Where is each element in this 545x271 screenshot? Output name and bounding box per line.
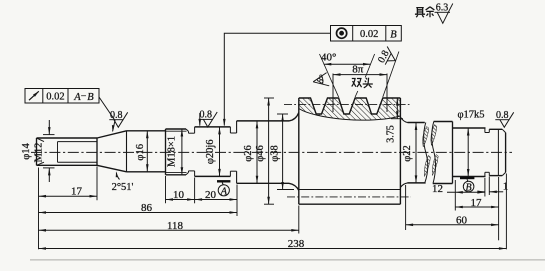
- shaft section phi16: [126, 131, 128, 172]
- shaft section M18x1: [165, 129, 167, 175]
- dimension 60: [406, 224, 499, 226]
- svg-text:φ14: φ14: [21, 142, 32, 159]
- shoulder section after break: [434, 121, 453, 123]
- feature control frame concentricity 0.02 B: [331, 26, 402, 42]
- extension line at 86/20 right: [236, 185, 238, 217]
- page bottom scan streak: [30, 259, 545, 261]
- shaft end section: [489, 128, 502, 130]
- svg-text:B: B: [466, 182, 472, 193]
- svg-text:6.3: 6.3: [436, 3, 449, 14]
- svg-text:φ46: φ46: [255, 145, 266, 162]
- svg-text:0.02: 0.02: [46, 92, 64, 103]
- dimension phi20j6: [219, 127, 221, 176]
- break line right piece: [432, 122, 436, 184]
- svg-text:B: B: [87, 92, 94, 103]
- shaft section M12 threaded stub: [36, 138, 38, 165]
- worm root line bottom: [299, 189, 401, 191]
- roughness 0.8 on worm tooth flank rotated: [376, 45, 399, 68]
- svg-text:−: −: [81, 91, 87, 102]
- tooth flank extension line for roughness: [383, 52, 399, 98]
- dimension phi46: [264, 97, 274, 99]
- svg-text:φ17k5: φ17k5: [457, 110, 484, 121]
- worm blank right end face: [399, 98, 401, 204]
- label qiyu remainder: [415, 8, 425, 18]
- thread relief line on M12 stub: [57, 142, 59, 163]
- svg-text:φ38: φ38: [269, 145, 280, 162]
- extension phi22 start down: [405, 185, 407, 230]
- dimension 12: [447, 191, 485, 193]
- dimension 118: [39, 229, 299, 231]
- svg-text:17: 17: [71, 186, 83, 198]
- leader from frame to phi20j6: [224, 33, 330, 125]
- relief groove after phi20j6: [229, 127, 231, 133]
- extension chamfer line down: [498, 177, 500, 240]
- svg-text:φ16: φ16: [135, 144, 146, 161]
- relief groove after phi17k5: [484, 128, 486, 133]
- svg-text:238: 238: [288, 238, 305, 250]
- svg-text:2°51': 2°51': [112, 182, 134, 193]
- svg-text:10: 10: [173, 189, 185, 201]
- svg-text:40°: 40°: [321, 52, 336, 64]
- svg-text:M12: M12: [34, 143, 45, 163]
- dimension 3.75: [391, 118, 403, 120]
- dimension 86: [39, 212, 238, 214]
- worm tip line bottom: [299, 203, 401, 205]
- extension line left end: [38, 168, 40, 250]
- svg-text:86: 86: [141, 202, 153, 214]
- dimension phi14 and M12: [43, 134, 55, 136]
- svg-text:1: 1: [503, 181, 509, 193]
- fillet worm to phi22 bottom: [400, 183, 407, 188]
- leader from frame to cone: [99, 97, 115, 131]
- svg-text:8π: 8π: [352, 63, 364, 75]
- worm pitch line bottom: [287, 196, 411, 198]
- svg-text:0.02: 0.02: [360, 29, 378, 40]
- dimension 20: [195, 199, 237, 201]
- 40 degree extension lines: [320, 54, 339, 97]
- svg-text:17: 17: [471, 197, 483, 209]
- worm thread profile: [299, 98, 401, 114]
- svg-text:118: 118: [167, 220, 184, 232]
- extension right end down: [505, 174, 507, 250]
- dimension phi22: [415, 123, 417, 183]
- shaft section phi26: [237, 120, 289, 122]
- svg-text:0.8: 0.8: [200, 110, 213, 121]
- extension worm left face down: [298, 206, 300, 234]
- svg-text:B: B: [390, 29, 397, 40]
- relief groove after M18x1: [188, 131, 190, 133]
- svg-text:M18×1: M18×1: [167, 136, 178, 167]
- datum A circle: [217, 180, 230, 182]
- 8pi extension lines: [332, 74, 334, 113]
- svg-text:12: 12: [432, 183, 443, 195]
- worm pitch line top: [284, 103, 410, 105]
- svg-text:60: 60: [456, 215, 468, 227]
- dimension 238: [39, 248, 507, 250]
- dimension 1 groove width: [479, 191, 485, 193]
- svg-text:0.8: 0.8: [110, 110, 123, 121]
- roughness 0.8 on phi20j6: [199, 110, 217, 127]
- dimension M18x1: [181, 129, 183, 175]
- shaft section phi17k5: [453, 127, 486, 129]
- dimension 40 degrees: [324, 63, 371, 65]
- extension journal left down: [454, 180, 456, 211]
- extension line phi20 start: [194, 178, 196, 204]
- lead angle 8 degree symbol: [313, 73, 326, 82]
- break line left piece: [424, 123, 428, 183]
- svg-text:A: A: [220, 186, 228, 197]
- svg-text:φ26: φ26: [243, 145, 254, 162]
- feature control frame circular runout 0.02 A-B: [25, 89, 99, 104]
- centerline of shaft: [31, 151, 512, 153]
- svg-text:φ22: φ22: [402, 145, 413, 162]
- dimension phi16: [146, 131, 148, 172]
- extension line M18 start: [165, 176, 167, 203]
- dimension 17 right: [455, 206, 498, 208]
- dimension phi26: [256, 121, 258, 183]
- worm thread broken-out section hatch: [299, 98, 401, 120]
- worm break line arc: [299, 109, 401, 121]
- datum B circle: [460, 177, 474, 179]
- default roughness 6.3 qiyu: [435, 11, 451, 13]
- roughness 0.8 on phi17k5 end: [495, 110, 513, 127]
- leader arrow on phi20j6 surface: [199, 113, 201, 126]
- svg-text:0.8: 0.8: [496, 110, 509, 121]
- extension line at M12 end: [96, 167, 98, 201]
- dimension 8pi: [333, 74, 387, 76]
- fillet worm to phi22 top: [400, 117, 407, 123]
- extension groove right down: [488, 177, 490, 196]
- shaft section phi20j6: [195, 126, 231, 128]
- svg-text:3.75: 3.75: [386, 125, 397, 143]
- dimension 17 left: [39, 195, 98, 197]
- worm blank left end face: [298, 98, 300, 204]
- dimension 10: [166, 199, 195, 201]
- dimension phi38: [277, 113, 288, 115]
- label shuangtou double start: [352, 79, 362, 88]
- svg-text:20: 20: [205, 189, 217, 201]
- svg-text:φ20j6: φ20j6: [205, 139, 216, 164]
- roughness 0.8 on cone: [109, 110, 127, 127]
- taper cone section: [97, 131, 127, 138]
- extension groove left down: [484, 178, 486, 197]
- shaft section phi22: [408, 122, 425, 124]
